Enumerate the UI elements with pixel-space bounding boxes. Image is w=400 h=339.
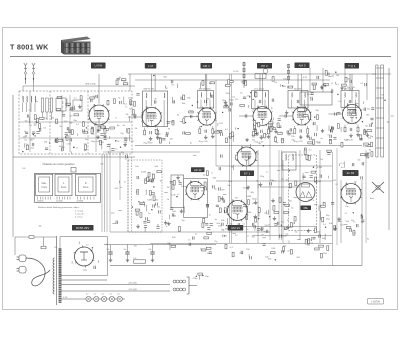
resistor R141 bbox=[228, 80, 230, 85]
bypass cap V6 bbox=[350, 128, 352, 131]
resistor R127 bbox=[283, 247, 285, 252]
tuner stub 13 bbox=[101, 141, 104, 143]
dial pointer symbol bbox=[71, 168, 76, 173]
capacitor C61 bbox=[283, 203, 286, 205]
AF vert 2 bbox=[257, 150, 259, 243]
mains plug P1 bbox=[17, 255, 27, 262]
junction X9 bbox=[192, 105, 193, 106]
resistor R124 bbox=[270, 252, 275, 254]
resistor R46 bbox=[255, 92, 257, 97]
svg-text:50u: 50u bbox=[107, 249, 110, 251]
svg-text:1M: 1M bbox=[235, 198, 238, 200]
tube V1 EC 92 bbox=[88, 104, 110, 126]
resistor R129 bbox=[321, 253, 323, 258]
grid wire V5 bbox=[279, 115, 293, 117]
wire W24 bbox=[320, 211, 322, 220]
magic eye label bbox=[228, 225, 244, 231]
resistor R136 bbox=[121, 79, 126, 81]
svg-text:0,1: 0,1 bbox=[94, 294, 97, 296]
resistor R151 bbox=[189, 111, 194, 113]
row1 stub 37 bbox=[260, 135, 263, 137]
capacitor C20 bbox=[166, 134, 168, 137]
cable wire 4 bbox=[109, 145, 111, 232]
capacitor C60 bbox=[280, 235, 282, 238]
dial lamp La3 bbox=[102, 296, 107, 301]
svg-text:25p: 25p bbox=[252, 109, 255, 111]
svg-text:L M: L M bbox=[148, 64, 153, 68]
capacitor C94 bbox=[209, 252, 212, 254]
ground G7 bbox=[323, 83, 327, 87]
resistor R106 bbox=[150, 192, 155, 194]
svg-text:100: 100 bbox=[190, 111, 193, 113]
capacitor C77 bbox=[331, 126, 333, 129]
wire W37 bbox=[164, 85, 166, 88]
af tick 12 bbox=[339, 163, 341, 166]
ground 2 under V6 bbox=[356, 133, 360, 137]
wire W4 bbox=[73, 106, 75, 110]
AF mesh wire 2 bbox=[216, 180, 333, 182]
input coil L4 bbox=[34, 96, 37, 102]
svg-text:0,5M: 0,5M bbox=[363, 146, 368, 148]
button section 3 bbox=[76, 174, 97, 196]
capacitor C106 bbox=[365, 83, 367, 86]
svg-text:25p: 25p bbox=[214, 241, 217, 243]
junction X25 bbox=[335, 72, 336, 73]
screen resistor V1 bbox=[104, 129, 106, 134]
ground G28 bbox=[224, 100, 228, 104]
resistor R150 bbox=[183, 119, 185, 124]
transformer core line bbox=[56, 236, 58, 305]
contact tick 2-3 bbox=[64, 197, 66, 200]
svg-text:1n: 1n bbox=[209, 215, 211, 217]
resistor R10 bbox=[80, 96, 82, 101]
resistor R120 bbox=[198, 273, 203, 275]
grid wire V6 bbox=[329, 113, 343, 115]
band label PP2 bbox=[257, 63, 272, 69]
tuner left rail bbox=[12, 95, 14, 154]
capacitor C70 bbox=[331, 202, 334, 204]
capacitor C49 bbox=[207, 204, 209, 207]
svg-text:Reg. 0,4V: Reg. 0,4V bbox=[294, 141, 304, 143]
afbottom tick 9 bbox=[221, 235, 223, 238]
svg-text:2n: 2n bbox=[76, 148, 78, 150]
ground G23 bbox=[285, 110, 289, 114]
ground G12 bbox=[221, 196, 225, 200]
resistor R128 bbox=[319, 245, 324, 247]
capacitor C48 bbox=[223, 200, 225, 203]
capacitor C82 bbox=[144, 226, 147, 228]
rectifier plates bbox=[80, 252, 88, 260]
svg-text:220p: 220p bbox=[228, 181, 232, 183]
svg-text:30k: 30k bbox=[121, 152, 124, 154]
svg-text:MW 460 kHz: MW 460 kHz bbox=[199, 88, 211, 90]
capacitor C10 bbox=[70, 138, 72, 141]
can feed 2 bbox=[205, 74, 207, 91]
wire W32 bbox=[144, 228, 146, 232]
IF can T4 bbox=[288, 91, 308, 109]
svg-text:1M: 1M bbox=[92, 96, 95, 98]
resistor R137 bbox=[210, 82, 215, 84]
input coil L1 bbox=[22, 96, 25, 102]
coupling cap V6 bbox=[335, 112, 337, 115]
elco ground 2 bbox=[151, 258, 155, 262]
capacitor C50 bbox=[206, 204, 209, 206]
coil lead 4 bbox=[34, 103, 36, 112]
svg-text:1M: 1M bbox=[130, 141, 133, 143]
resistor R98 bbox=[153, 196, 155, 201]
resistor R113 bbox=[308, 239, 310, 244]
svg-text:8p: 8p bbox=[263, 231, 265, 233]
can feed 3 bbox=[259, 74, 261, 91]
svg-text:2n: 2n bbox=[301, 116, 303, 118]
capacitor C67 bbox=[327, 153, 330, 155]
resistor R144 bbox=[272, 77, 274, 82]
ground G26 bbox=[306, 229, 310, 233]
anode feed V5 bbox=[301, 74, 303, 106]
capacitor C111 bbox=[253, 130, 256, 132]
svg-text:1n: 1n bbox=[211, 172, 213, 174]
resistor R111 bbox=[264, 133, 266, 138]
svg-text:220p: 220p bbox=[201, 169, 205, 171]
resistor R105 bbox=[135, 209, 140, 211]
capacitor C114 bbox=[337, 112, 340, 114]
capacitor C36 bbox=[360, 138, 363, 140]
capacitor C22 bbox=[166, 132, 168, 135]
junction X15 bbox=[325, 227, 326, 228]
psu tick 2 bbox=[71, 261, 73, 264]
ground G17 bbox=[286, 225, 290, 229]
capacitor C47 bbox=[210, 224, 213, 226]
svg-text:70p: 70p bbox=[345, 206, 348, 208]
coil lead 2 bbox=[26, 103, 28, 112]
capacitor C115 bbox=[364, 108, 366, 111]
svg-text:70p: 70p bbox=[360, 222, 363, 224]
af stub 27 bbox=[314, 203, 317, 205]
capacitor C58 bbox=[266, 230, 268, 233]
tuner partition b bbox=[87, 91, 89, 154]
svg-text:2n: 2n bbox=[125, 107, 127, 109]
AF mesh wire 4 bbox=[110, 231, 270, 233]
tuner tick 7 bbox=[77, 133, 79, 136]
AF mesh wire 1 bbox=[216, 165, 332, 167]
ground G19 bbox=[246, 186, 250, 190]
drop to ratio box bbox=[309, 68, 311, 92]
fuse Si2 bbox=[41, 246, 46, 249]
svg-text:0,2: 0,2 bbox=[61, 139, 64, 141]
capacitor C65 bbox=[243, 205, 246, 207]
svg-text:Chassis von unten gesehen: Chassis von unten gesehen bbox=[43, 162, 76, 166]
capacitor C6 bbox=[36, 132, 39, 134]
junction X28 bbox=[371, 123, 372, 124]
grid wire V2 bbox=[128, 116, 142, 118]
contact tick 3-0 bbox=[77, 197, 79, 200]
svg-text:100: 100 bbox=[134, 245, 137, 247]
resistor R145 bbox=[325, 71, 327, 76]
svg-text:0,1: 0,1 bbox=[109, 294, 112, 296]
ant drop a bbox=[22, 86, 24, 91]
capacitor C124 bbox=[370, 118, 373, 120]
magic eye tube V11 bbox=[296, 183, 315, 202]
ground G14 bbox=[271, 198, 275, 202]
capacitor C26 bbox=[287, 133, 290, 135]
svg-text:1,2k: 1,2k bbox=[133, 258, 136, 260]
wire W35 bbox=[198, 273, 200, 279]
resistor R72 bbox=[295, 181, 297, 186]
capacitor C120 bbox=[362, 162, 364, 165]
capacitor C54 bbox=[225, 210, 227, 213]
mixer coil box bbox=[73, 100, 82, 111]
resistor R43 bbox=[313, 85, 315, 90]
can lead a5 bbox=[344, 100, 346, 108]
wire W25 bbox=[318, 205, 320, 211]
resistor R108 bbox=[149, 179, 154, 181]
capacitor C78 bbox=[313, 122, 315, 125]
mid cap 23 bbox=[238, 223, 240, 226]
B+ filter rail bbox=[104, 244, 216, 246]
ground G6 bbox=[320, 85, 324, 89]
lead ra V6 bbox=[344, 125, 346, 128]
chain wire a bbox=[243, 62, 245, 88]
resistor R5 bbox=[26, 145, 28, 150]
AF vert 11 bbox=[365, 150, 367, 243]
svg-text:500: 500 bbox=[309, 200, 312, 202]
scale rung 6 bbox=[376, 127, 384, 129]
tuner mid wire 2 bbox=[19, 137, 132, 139]
tuner vert 1 bbox=[29, 91, 31, 152]
resistor R125 bbox=[201, 249, 206, 251]
resistor R119 bbox=[207, 232, 212, 234]
lead ra V5 bbox=[294, 126, 296, 129]
row1 junction 33 bbox=[222, 112, 223, 113]
capacitor C86 bbox=[143, 221, 146, 223]
svg-text:500: 500 bbox=[224, 235, 227, 237]
svg-text:5k: 5k bbox=[166, 226, 168, 228]
resistor R95 bbox=[341, 142, 343, 147]
svg-text:Wellenschalter Stellung gezeic: Wellenschalter Stellung gezeichnet: «Aus… bbox=[38, 206, 80, 209]
resistor R102 bbox=[140, 203, 145, 205]
anode feed V2 bbox=[151, 74, 153, 106]
resistor R32 bbox=[231, 132, 233, 137]
capacitor C73 bbox=[350, 229, 352, 232]
AF vert 9 bbox=[281, 150, 283, 240]
cathode resistor V1 bbox=[91, 129, 93, 134]
resistor R99 bbox=[136, 211, 138, 216]
resistor R114 bbox=[305, 239, 307, 244]
svg-text:0,5M: 0,5M bbox=[317, 167, 322, 169]
lead rb V1 bbox=[104, 126, 106, 129]
svg-text:0,5M: 0,5M bbox=[219, 123, 223, 125]
svg-text:1M: 1M bbox=[329, 140, 332, 142]
IF coil primary 2 bbox=[200, 93, 203, 98]
band label UKW bbox=[91, 63, 106, 69]
bypass cap V5 bbox=[300, 129, 302, 132]
capacitor C112 bbox=[305, 108, 307, 111]
pickup jack bbox=[263, 69, 268, 74]
trimmer C in can 3 bbox=[259, 100, 261, 103]
svg-text:0,1: 0,1 bbox=[195, 233, 198, 235]
ground 2 under V5 bbox=[306, 134, 310, 138]
tuner junction 8 bbox=[65, 136, 66, 137]
junction X1 bbox=[33, 134, 34, 135]
header rule bbox=[10, 56, 391, 58]
dial lamp La1 bbox=[86, 296, 91, 301]
wire W44 bbox=[169, 242, 171, 250]
svg-text:1n: 1n bbox=[266, 171, 268, 173]
coupling cap V2 bbox=[134, 115, 136, 118]
capacitor C24 bbox=[221, 133, 223, 136]
resistor R86 bbox=[353, 231, 355, 236]
contact tick 3-4 bbox=[90, 197, 92, 200]
lead rb V4 bbox=[267, 126, 269, 129]
svg-text:0,2: 0,2 bbox=[336, 184, 339, 186]
topband tick 12 bbox=[321, 87, 323, 90]
wire W16 bbox=[183, 206, 185, 213]
row1 tick 32 bbox=[274, 136, 276, 139]
mid cap 2 bbox=[192, 236, 194, 239]
afbottom tick 2 bbox=[248, 254, 250, 257]
capacitor C29 bbox=[315, 133, 317, 136]
tuner unit dashed enclosure bbox=[19, 91, 132, 154]
capacitor C109 bbox=[229, 108, 231, 111]
capacitor C15 bbox=[107, 145, 110, 147]
resistor R97 bbox=[137, 190, 139, 195]
resistor R18 bbox=[56, 119, 58, 124]
right wire lower bbox=[388, 200, 390, 230]
mid cap 20 bbox=[146, 217, 148, 220]
connector lead bbox=[189, 285, 197, 287]
resistor R56 bbox=[172, 185, 174, 190]
resistor R7 bbox=[71, 130, 73, 135]
junction X8 bbox=[250, 92, 251, 93]
capacitor C100 bbox=[96, 95, 98, 98]
ground G10 bbox=[164, 221, 168, 225]
svg-text:220p: 220p bbox=[229, 99, 235, 101]
can lead a1 bbox=[145, 100, 147, 127]
svg-text:15k: 15k bbox=[140, 204, 143, 206]
svg-text:500: 500 bbox=[203, 174, 206, 176]
resistor R4 bbox=[39, 124, 41, 129]
AF vert 5 bbox=[319, 150, 321, 243]
lead rb V3 bbox=[212, 126, 214, 129]
AF vert 1 bbox=[246, 166, 248, 243]
svg-text:15k: 15k bbox=[221, 230, 224, 232]
wire W2 bbox=[28, 117, 30, 123]
topband tick 13 bbox=[287, 86, 289, 89]
cable wire 3 bbox=[106, 154, 108, 232]
svg-text:1M: 1M bbox=[246, 249, 249, 251]
row1 stub 5 bbox=[270, 123, 273, 125]
resistor R117 bbox=[202, 223, 204, 228]
svg-text:500: 500 bbox=[255, 154, 258, 156]
coil lead 1 bbox=[22, 103, 24, 112]
svg-text:8p: 8p bbox=[160, 180, 162, 182]
resistor R15 bbox=[83, 131, 88, 133]
svg-text:AM 1: AM 1 bbox=[203, 64, 210, 68]
tuner tick 10 bbox=[108, 136, 110, 139]
label under detector tube bbox=[301, 206, 312, 211]
ground G21 bbox=[333, 226, 337, 230]
resistor R133 bbox=[90, 97, 95, 99]
resistor R131 bbox=[314, 228, 316, 233]
svg-text:1M: 1M bbox=[169, 138, 172, 140]
row1 junction 23 bbox=[356, 117, 357, 118]
svg-text:3 = (L+K): 3 = (L+K) bbox=[75, 214, 84, 216]
wire W19 bbox=[258, 208, 260, 217]
resistor R89 bbox=[258, 122, 260, 127]
resistor R26 bbox=[186, 132, 191, 134]
wire W34 bbox=[226, 218, 228, 224]
psu tick 1 bbox=[97, 260, 99, 263]
EL84 label bbox=[343, 170, 359, 176]
divider resistor chain b0 bbox=[288, 64, 290, 68]
capacitor C46 bbox=[170, 181, 173, 183]
scale rung 8 bbox=[376, 147, 384, 149]
coupling cap V3 bbox=[190, 115, 192, 118]
svg-text:15k: 15k bbox=[230, 223, 233, 225]
wire W11 bbox=[169, 142, 171, 144]
resistor R156 bbox=[316, 115, 318, 120]
resistor R90 bbox=[269, 123, 271, 128]
svg-text:2n: 2n bbox=[331, 89, 333, 91]
resistor R155 bbox=[254, 121, 256, 126]
svg-text:220p: 220p bbox=[260, 176, 264, 178]
scale tap bbox=[372, 73, 376, 75]
svg-text:+255 (6)V: +255 (6)V bbox=[128, 289, 138, 291]
mid junction 14 bbox=[153, 186, 154, 187]
row1 junction 21 bbox=[384, 100, 385, 101]
af tick 14 bbox=[266, 211, 268, 214]
af stub 0 bbox=[338, 221, 341, 223]
resistor R126 bbox=[206, 247, 211, 249]
capacitor C63 bbox=[252, 223, 254, 226]
output transformer box bbox=[282, 152, 296, 170]
resistor R139 bbox=[226, 84, 231, 86]
wire W27 bbox=[328, 125, 330, 131]
divider resistor chain b1 bbox=[288, 70, 290, 74]
button inner 3 bbox=[79, 177, 94, 192]
svg-text:0,5M: 0,5M bbox=[282, 235, 287, 237]
can feed 1 bbox=[154, 74, 156, 91]
svg-text:2n: 2n bbox=[282, 165, 284, 167]
row1 stub 28 bbox=[183, 116, 186, 118]
tuner junction 19 bbox=[86, 127, 87, 128]
can feed 5 bbox=[349, 74, 351, 91]
IF coil secondary 5 bbox=[355, 93, 358, 98]
resistor R12 bbox=[85, 145, 87, 150]
svg-text:5k: 5k bbox=[247, 229, 249, 231]
capacitor C62 bbox=[284, 228, 287, 230]
drop 2 to ratio box bbox=[322, 68, 324, 92]
svg-text:50k: 50k bbox=[357, 159, 360, 161]
grid wire V4 bbox=[239, 115, 253, 117]
svg-text:25p: 25p bbox=[121, 133, 124, 135]
resistor R165 bbox=[367, 130, 372, 132]
af junction 18 bbox=[294, 222, 295, 223]
cablezone tick 2 bbox=[118, 181, 120, 184]
resistor R161 bbox=[200, 185, 205, 187]
can lead b1 bbox=[163, 100, 165, 127]
coil lead 5 bbox=[42, 112, 44, 120]
can lead b4 bbox=[304, 100, 306, 109]
resistor R148 bbox=[132, 110, 134, 115]
wire W12 bbox=[233, 136, 235, 142]
svg-text:1M: 1M bbox=[156, 137, 159, 139]
screen resistor V2 bbox=[157, 130, 159, 135]
resistor R142 bbox=[245, 81, 247, 86]
scale rung 5 bbox=[376, 117, 384, 119]
trimmer C in can 2 bbox=[205, 100, 207, 103]
bypass cap V4 bbox=[261, 130, 263, 133]
